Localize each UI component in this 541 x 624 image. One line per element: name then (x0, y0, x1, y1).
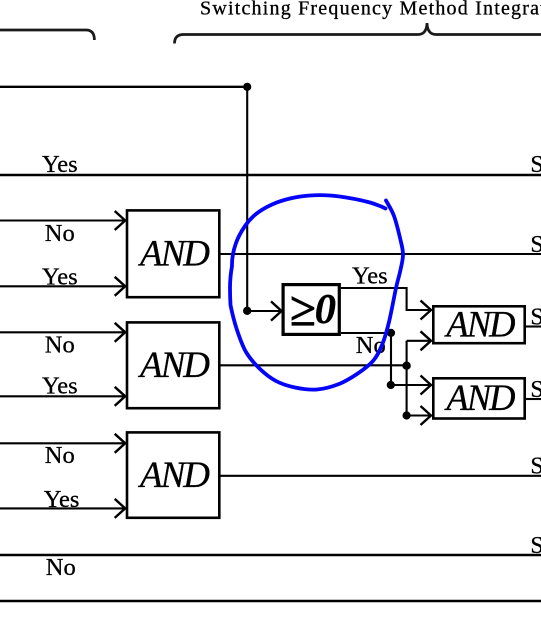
svg-text:Yes: Yes (44, 486, 80, 513)
svg-text:Yes: Yes (42, 151, 78, 178)
svg-text:0: 0 (315, 286, 336, 333)
svg-text:AND: AND (444, 377, 515, 418)
svg-text:S: S (530, 533, 541, 559)
svg-text:No: No (45, 442, 75, 469)
svg-text:No: No (46, 554, 76, 581)
svg-text:S: S (530, 377, 541, 403)
svg-text:AND: AND (137, 233, 210, 274)
svg-text:Yes: Yes (42, 372, 78, 399)
svg-text:S: S (530, 232, 541, 258)
svg-text:S: S (530, 152, 541, 178)
svg-text:S: S (530, 453, 541, 479)
svg-text:AND: AND (137, 455, 210, 496)
svg-text:AND: AND (444, 303, 515, 344)
svg-text:AND: AND (137, 345, 210, 386)
svg-text:No: No (45, 220, 75, 247)
svg-text:Yes: Yes (352, 263, 388, 290)
svg-text:S: S (530, 304, 541, 330)
svg-text:Switching Frequency Method Int: Switching Frequency Method Integration (200, 0, 541, 20)
svg-text:≥: ≥ (289, 284, 315, 337)
svg-text:No: No (45, 331, 75, 358)
svg-text:Yes: Yes (42, 263, 78, 290)
